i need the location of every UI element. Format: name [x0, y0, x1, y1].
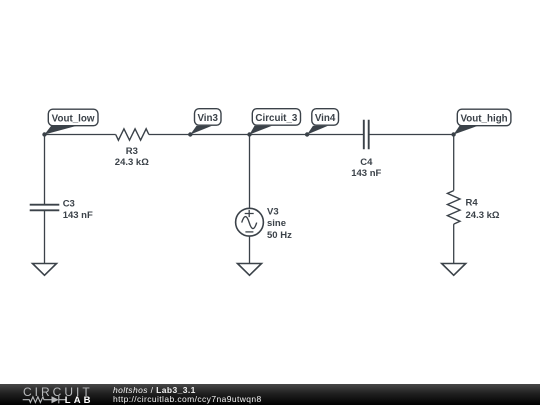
footer bar [0, 384, 540, 405]
node dot Vin3 [188, 132, 192, 136]
CircuitLab logo wordmark [23, 386, 93, 398]
svg-text:Vin3: Vin3 [197, 113, 218, 124]
label V3 value [267, 207, 292, 242]
svg-text:143 nF: 143 nF [351, 168, 381, 179]
node dot Vin4 [305, 132, 309, 136]
svg-text:C3: C3 [63, 199, 75, 210]
wire Vout_low down to C3 [44, 135, 46, 205]
svg-text:R4: R4 [466, 198, 479, 209]
wire Circuit_3 down to V3 [249, 135, 251, 209]
node dot Vout_low [42, 132, 46, 136]
credits line 1 [113, 386, 196, 395]
CircuitLab logo squiggle (resistor + diode) [22, 395, 68, 405]
node label Vout_high [454, 109, 511, 134]
label R4 value [466, 198, 500, 222]
wire C3 to ground [44, 210, 46, 263]
svg-text:Vout_high: Vout_high [461, 113, 508, 124]
voltage source V3 [236, 208, 264, 236]
svg-text:24.3 kΩ: 24.3 kΩ [466, 210, 500, 221]
capacitor C4 [364, 120, 369, 150]
svg-text:143 nF: 143 nF [63, 210, 93, 221]
capacitor C3 [30, 205, 60, 211]
node dot Circuit_3 [247, 132, 251, 136]
ground GND1 [33, 264, 57, 276]
node label Vin3 [190, 109, 221, 135]
svg-text:C4: C4 [360, 157, 373, 168]
wire V3 to ground [249, 236, 251, 263]
label C3 value [63, 199, 93, 222]
svg-text:sine: sine [267, 218, 286, 229]
wire Vout_high down to R4 [453, 135, 455, 191]
ground GND2 [238, 264, 262, 276]
label C4 value [351, 157, 381, 179]
svg-text:Circuit_3: Circuit_3 [255, 113, 297, 124]
wire main horizontal Vout_low to R3 [45, 134, 116, 136]
node label Vout_low [45, 109, 99, 134]
svg-text:Vin4: Vin4 [315, 113, 336, 124]
wire R4 to ground [453, 224, 455, 263]
resistor R4 [447, 191, 460, 225]
wire R3 to C4 [149, 134, 364, 136]
svg-text:R3: R3 [126, 146, 138, 157]
svg-text:Vout_low: Vout_low [52, 113, 95, 124]
ground GND3 [442, 264, 466, 276]
credits line 2 [113, 395, 262, 404]
svg-text:24.3 kΩ: 24.3 kΩ [115, 157, 149, 168]
node dot Vout_high [451, 132, 455, 136]
svg-text:V3: V3 [267, 207, 279, 218]
CircuitLab logo LAB [65, 396, 94, 406]
node label Circuit_3 [250, 109, 301, 135]
svg-text:50 Hz: 50 Hz [267, 230, 292, 241]
wire C4 to Vout_high [369, 134, 454, 136]
label R3 value [115, 146, 149, 168]
resistor R3 [116, 129, 149, 140]
node label Vin4 [307, 109, 338, 135]
